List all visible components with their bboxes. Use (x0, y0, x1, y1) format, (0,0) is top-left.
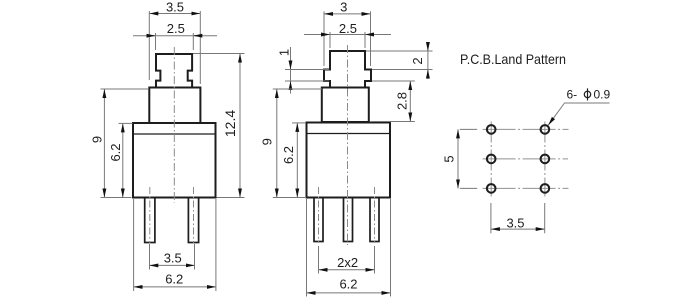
pin centerline fig1 left (149, 187, 151, 243)
pin centerline fig2 right (374, 187, 376, 243)
pin fig1 right (188, 198, 198, 243)
pcb row line 1 (483, 128, 569, 130)
hole r2c1 (487, 155, 496, 164)
svg-text:1: 1 (277, 49, 292, 56)
svg-text:6.2: 6.2 (281, 146, 296, 164)
svg-text:9: 9 (260, 138, 275, 145)
dim 5 pcb (457, 129, 459, 188)
collar fig1 (149, 88, 200, 124)
svg-text:2.8: 2.8 (395, 92, 410, 110)
dim 3.5 bottom fig1 (149, 264, 195, 266)
hole r3c2 (541, 184, 550, 193)
svg-text:5: 5 (442, 155, 457, 162)
dim 2.5 fig2 (304, 34, 391, 36)
centerline fig2 (347, 45, 349, 245)
dim 2x2 fig2 (319, 269, 375, 271)
pin centerline fig1 right (193, 187, 195, 243)
pcb row line 2 (483, 158, 568, 160)
body fig1 (133, 123, 216, 198)
dim 3.5 pcb (491, 228, 545, 230)
body fig2 (307, 123, 391, 198)
pcb col line 2 (544, 122, 546, 197)
dim 9 fig2 (276, 89, 278, 198)
hole r2c2 (541, 155, 550, 164)
dim 2.5 fig1 (133, 35, 217, 37)
svg-text:3: 3 (340, 0, 347, 15)
svg-text:6.2: 6.2 (339, 277, 357, 292)
svg-text:3.5: 3.5 (506, 215, 524, 230)
centerline fig1 (173, 47, 175, 203)
leader 6-phi0.9 (548, 103, 564, 125)
svg-text:6.2: 6.2 (108, 143, 123, 161)
svg-text:2.5: 2.5 (339, 21, 357, 36)
svg-text:6.2: 6.2 (165, 271, 183, 286)
pin fig1 left (145, 198, 155, 243)
svg-text:9: 9 (90, 136, 105, 143)
pin fig2 middle (344, 198, 353, 242)
hole r1c2 (541, 125, 550, 134)
plunger fig1 (156, 54, 192, 88)
svg-text:P.C.B.Land Pattern: P.C.B.Land Pattern (460, 51, 566, 67)
svg-text:2.5: 2.5 (167, 21, 185, 36)
dim 6.2 bottom fig1 (134, 286, 216, 288)
dim 6.2 bottom fig2 (307, 292, 391, 294)
dim 3.5 top fig1 (149, 13, 200, 15)
pcb row line 3 (483, 187, 569, 189)
dim 9 fig1 (103, 89, 105, 198)
dim 2 fig2 (427, 44, 429, 80)
pin centerline fig2 left (318, 187, 320, 243)
dim 12.4 fig1 (239, 54, 241, 198)
collar fig2 (322, 88, 369, 123)
dim 2.8 fig2 (409, 81, 411, 122)
body rim line fig1 (133, 133, 216, 135)
pcb col line 1 (490, 122, 492, 197)
pin fig2 left (314, 198, 323, 242)
svg-text:2: 2 (410, 57, 425, 64)
dim 3 top fig2 (324, 13, 371, 15)
svg-text:0.9: 0.9 (594, 88, 611, 102)
body rim line fig2 (307, 133, 391, 135)
svg-text:12.4: 12.4 (222, 110, 238, 137)
svg-text:2x2: 2x2 (337, 255, 358, 270)
dim 6.2 left fig2 (296, 123, 298, 198)
svg-text:3.5: 3.5 (164, 250, 182, 265)
dim 6.2 left fig1 (122, 123, 124, 197)
pin fig2 right (370, 198, 379, 242)
svg-text:6-: 6- (567, 88, 578, 102)
hole r3c1 (487, 184, 496, 193)
dim 1 fig2 (290, 47, 292, 94)
plunger fig2 with side tabs (324, 51, 371, 88)
svg-text:3.5: 3.5 (166, 0, 184, 15)
hole r1c1 (487, 125, 496, 134)
